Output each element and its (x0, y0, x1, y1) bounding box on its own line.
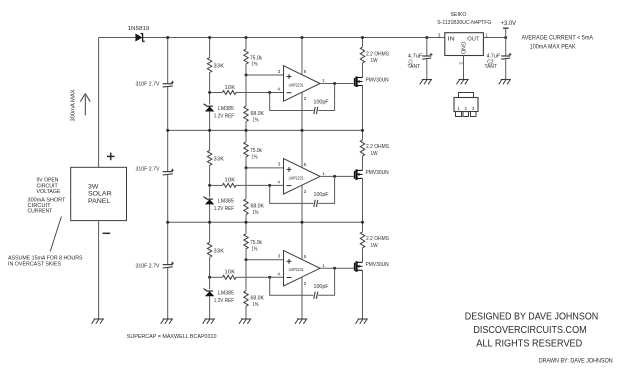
wire rail 2 (168, 221, 363, 223)
resistor 10K (stage 3) (210, 275, 247, 279)
package drawing SOT-89 (454, 93, 478, 117)
svg-text:33K: 33K (214, 64, 225, 70)
ground MOSFET source column (356, 319, 368, 324)
svg-text:LM385: LM385 (218, 199, 234, 205)
svg-text:VOLTAGE: VOLTAGE (37, 189, 61, 195)
svg-text:1W: 1W (371, 243, 379, 249)
wire op-amp V+ pin 5 (stage 1) (301, 38, 303, 75)
note average current (522, 35, 594, 51)
power +3.0V (501, 21, 517, 38)
voltage regulator U4 SEIKO S-1131B30UC-N4PTFG (445, 33, 484, 56)
pin 3 label (stage 2) (278, 162, 281, 167)
resistor 75.0k 1% (stage 3) (244, 222, 248, 259)
svg-text:1: 1 (457, 106, 460, 111)
svg-text:75.0k: 75.0k (250, 240, 262, 246)
svg-text:1%: 1% (252, 155, 258, 161)
junction C1 node (425, 36, 428, 39)
junction 75.0k top (stage 1) (245, 36, 248, 39)
wire op-amp V- pin 2 (stage 1) (301, 92, 303, 130)
label 100pF (stage 1) (314, 99, 330, 105)
label 2.2 OHMS 1W (stage 2) (366, 144, 389, 157)
pin 4 label (stage 3) (277, 271, 280, 276)
label LM385 1.2V REF (stage 1) (214, 106, 235, 120)
svg-text:33K: 33K (214, 248, 225, 254)
pin 2 label (stage 3) (304, 281, 307, 286)
note 300mA short circuit current (28, 197, 66, 214)
svg-text:GND: GND (459, 42, 465, 54)
svg-text:AVERAGE CURRENT < 5mA: AVERAGE CURRENT < 5mA (522, 35, 594, 42)
label 310F 2.7V (stage 3) (136, 263, 160, 269)
svg-text:1: 1 (322, 78, 325, 83)
label PMV30UN (stage 2) (366, 170, 389, 176)
svg-text:PANEL: PANEL (88, 198, 111, 205)
wire MOSFET source down (stage 3) (362, 270, 364, 319)
capacitor supercap 310F 2.7V (stage 1) (163, 38, 174, 131)
label 10K (stage 3) (225, 270, 236, 276)
svg-text:DISCOVERCIRCUITS.COM: DISCOVERCIRCUITS.COM (473, 325, 586, 336)
svg-text:LMP2231: LMP2231 (289, 175, 304, 180)
svg-text:1.2V REF: 1.2V REF (214, 298, 235, 304)
svg-text:LMP2231: LMP2231 (289, 267, 304, 272)
svg-text:4: 4 (277, 271, 280, 276)
ground op-amp V- column (295, 319, 307, 324)
label 100pF (stage 3) (314, 284, 330, 290)
wire op-amp V+ pin 5 (stage 3) (301, 222, 303, 259)
resistor 33K (stage 3) (207, 222, 211, 277)
label 33K (stage 2) (214, 156, 225, 162)
junction output feedback node (stage 1) (333, 82, 336, 85)
capacitor supercap 310F 2.7V (stage 3) (163, 222, 174, 319)
svg-text:10K: 10K (225, 270, 236, 276)
svg-text:1%: 1% (253, 117, 259, 123)
label 68.0K 1% (stage 2) (251, 204, 265, 217)
wire regulator GND to ground (463, 56, 465, 80)
pin 3 label (stage 1) (278, 69, 281, 74)
ground regulator (457, 80, 469, 85)
svg-text:68.0K: 68.0K (251, 111, 265, 117)
junction V+ at rail (stage 2) (301, 129, 304, 132)
transistor Q2 PMV30UN (355, 169, 363, 180)
diode LM385 1.2V REF (stage 2) (203, 185, 214, 222)
leader line to note (50, 217, 61, 252)
op-amp U1 LMP2231 (284, 66, 321, 102)
pin 1 label (stage 1) (322, 78, 325, 83)
pin 1 label (stage 2) (322, 171, 325, 176)
junction inverting input node (stage 2) (268, 184, 271, 187)
label 100pF (stage 2) (314, 192, 330, 198)
svg-text:DESIGNED BY DAVE JOHNSON: DESIGNED BY DAVE JOHNSON (465, 312, 599, 323)
svg-text:LM385: LM385 (218, 291, 234, 297)
svg-text:100pF: 100pF (314, 284, 330, 290)
resistor 68.0K 1% (stage 2) (244, 168, 248, 222)
pin 1 label regulator OUT (485, 32, 488, 37)
label 75.0k 1% (stage 1) (250, 55, 262, 67)
svg-text:5: 5 (304, 254, 307, 259)
label 2.2 OHMS 1W (stage 1) (366, 51, 389, 64)
ground supercap column (161, 319, 173, 324)
svg-text:2: 2 (464, 106, 467, 111)
svg-text:TANT: TANT (485, 64, 498, 70)
ground LM385 column (203, 319, 215, 324)
resistor 33K (stage 2) (207, 130, 211, 185)
svg-text:3: 3 (438, 32, 441, 37)
svg-text:LM385: LM385 (218, 106, 234, 112)
svg-text:1: 1 (485, 32, 488, 37)
junction 33K top (stage 3) (208, 221, 211, 224)
svg-text:ASSUME 15mA FOR 8 HOURS: ASSUME 15mA FOR 8 HOURS (8, 255, 83, 261)
wire MOSFET source down (stage 1) (362, 86, 364, 131)
junction top of supercap column (stage 1) (166, 36, 169, 39)
label PMV30UN (stage 1) (366, 77, 389, 83)
label 2.2 OHMS 1W (stage 3) (366, 236, 389, 249)
note supercap type (127, 334, 217, 340)
junction inverting input node (stage 1) (268, 91, 271, 94)
resistor 10K (stage 1) (210, 91, 247, 95)
svg-text:CURRENT: CURRENT (28, 209, 53, 215)
junction top of supercap column (stage 2) (166, 129, 169, 132)
svg-text:100mA MAX PEAK: 100mA MAX PEAK (530, 43, 576, 50)
junction 75.0k top (stage 3) (245, 221, 248, 224)
svg-text:S-1131B30UC-N4PTFG: S-1131B30UC-N4PTFG (437, 20, 491, 26)
resistor 68.0K 1% (stage 1) (244, 75, 248, 130)
junction 2.2 ohm top (stage 1) (361, 36, 364, 39)
wire op-amp output (stage 2) (320, 175, 354, 177)
wire op-amp V- pin 2 (stage 3) (301, 277, 303, 319)
svg-text:1W: 1W (371, 58, 379, 64)
label 33K (stage 1) (214, 64, 225, 70)
svg-text:75.0k: 75.0k (250, 148, 262, 154)
svg-text:SOLAR: SOLAR (88, 191, 112, 198)
svg-text:2.2 OHMS: 2.2 OHMS (366, 51, 389, 57)
capacitor 100pF feedback (stage 3) (270, 268, 335, 299)
label SEIKO part number (437, 12, 491, 26)
resistor 2.2 OHMS 1W (stage 3) (360, 222, 364, 262)
label 10K (stage 1) (225, 85, 236, 91)
svg-text:1%: 1% (252, 62, 258, 68)
svg-text:2: 2 (304, 189, 307, 194)
svg-text:1%: 1% (253, 302, 259, 308)
transistor Q3 PMV30UN (355, 261, 363, 272)
svg-text:2: 2 (304, 281, 307, 286)
svg-text:2: 2 (304, 96, 307, 101)
junction output feedback node (stage 2) (333, 175, 336, 178)
junction 75.0k top (stage 2) (245, 129, 248, 132)
resistor 33K (stage 1) (207, 38, 211, 93)
pin 4 label (stage 2) (277, 179, 280, 184)
note 9V open circuit voltage (37, 178, 61, 195)
svg-text:100pF: 100pF (314, 192, 330, 198)
junction output feedback node (stage 3) (333, 267, 336, 270)
ground solar panel (92, 319, 104, 324)
svg-text:DRAWN BY: DAVE JOHNSON: DRAWN BY: DAVE JOHNSON (539, 357, 613, 364)
resistor 75.0k 1% (stage 2) (244, 130, 248, 168)
svg-text:10K: 10K (225, 85, 236, 91)
junction V+ at rail (stage 1) (301, 36, 304, 39)
wire rail 1 (168, 129, 363, 131)
label + solar panel positive (107, 153, 115, 161)
label 68.0K 1% (stage 1) (251, 111, 265, 124)
label 75.0k 1% (stage 2) (250, 148, 262, 160)
svg-text:PMV30UN: PMV30UN (366, 77, 389, 83)
svg-text:300mA MAX: 300mA MAX (71, 89, 77, 121)
svg-text:IN: IN (448, 37, 455, 43)
label 310F 2.7V (stage 1) (136, 82, 160, 88)
ground C2 (499, 80, 511, 85)
wire inverting input (stage 2) (247, 184, 284, 186)
wire top rail (143, 37, 445, 39)
junction V+ at rail (stage 3) (301, 221, 304, 224)
svg-text:1W: 1W (371, 151, 379, 157)
svg-text:3: 3 (278, 254, 281, 259)
svg-text:SUPERCAP = MAXWELL BCAP0310: SUPERCAP = MAXWELL BCAP0310 (127, 334, 217, 340)
label LM385 1.2V REF (stage 2) (214, 199, 235, 213)
wire inverting input (stage 3) (247, 276, 284, 278)
wire solar panel positive to top rail (99, 38, 136, 168)
wire MOSFET source down (stage 2) (362, 178, 364, 222)
label 68.0K 1% (stage 3) (251, 296, 265, 309)
svg-text:310F 2.7V: 310F 2.7V (136, 82, 160, 88)
svg-text:10K: 10K (225, 178, 236, 184)
svg-text:3: 3 (278, 69, 281, 74)
label 75.0k 1% (stage 3) (250, 240, 262, 252)
svg-text:TANT: TANT (408, 64, 421, 70)
wire inverting input (stage 1) (247, 92, 284, 94)
solar panel PV1 3W (71, 167, 127, 220)
svg-text:75.0k: 75.0k (250, 55, 262, 61)
svg-text:68.0K: 68.0K (251, 296, 265, 302)
pin 1 label (stage 3) (322, 263, 325, 268)
wire op-amp output (stage 3) (320, 267, 354, 269)
wire op-amp V+ pin 5 (stage 2) (301, 130, 303, 167)
junction divider node (stage 2) (245, 166, 248, 169)
svg-text:2.2 OHMS: 2.2 OHMS (366, 144, 389, 150)
resistor 2.2 OHMS 1W (stage 1) (360, 38, 364, 78)
junction 2.2 ohm top (stage 2) (361, 129, 364, 132)
pin 2 label (stage 2) (304, 189, 307, 194)
capacitor C1 4.7uF TANT (422, 38, 432, 80)
svg-text:3: 3 (278, 162, 281, 167)
svg-text:310F 2.7V: 310F 2.7V (136, 167, 160, 173)
svg-text:OUT: OUT (467, 37, 480, 43)
pin 5 label (stage 2) (304, 162, 307, 167)
resistor 10K (stage 2) (210, 183, 247, 187)
diode D1 1N5819 (128, 26, 150, 42)
pin 3 label (stage 3) (278, 254, 281, 259)
pin 2 label regulator GND (458, 62, 463, 65)
label - solar panel negative (103, 232, 111, 234)
wire regulator output (483, 37, 505, 39)
svg-text:100pF: 100pF (314, 99, 330, 105)
capacitor 100pF feedback (stage 2) (270, 176, 335, 207)
junction divider node (stage 1) (245, 74, 248, 77)
svg-text:5: 5 (304, 69, 307, 74)
svg-text:LMP2231: LMP2231 (289, 82, 304, 87)
ground 68K column (239, 319, 251, 324)
label LM385 1.2V REF (stage 3) (214, 291, 235, 305)
note assume 15mA for 8 hours in overcast skies (8, 255, 83, 267)
svg-text:3W: 3W (88, 183, 99, 190)
svg-text:SEIKO: SEIKO (451, 12, 467, 18)
svg-text:68.0K: 68.0K (251, 204, 265, 210)
capacitor C2 4.7uF TANT (501, 38, 511, 80)
resistor 75.0k 1% (stage 1) (244, 38, 248, 76)
svg-text:310F 2.7V: 310F 2.7V (136, 263, 160, 269)
pin 3 label regulator IN (438, 32, 441, 37)
op-amp U2 LMP2231 (284, 159, 321, 195)
capacitor 100pF feedback (stage 1) (270, 84, 335, 115)
credits designed by (465, 312, 599, 350)
svg-text:PMV30UN: PMV30UN (366, 262, 389, 268)
diode LM385 1.2V REF (stage 1) (203, 93, 214, 131)
svg-text:1: 1 (322, 171, 325, 176)
pin 4 label (stage 1) (277, 87, 280, 92)
current arrow 300mA MAX (71, 89, 91, 121)
junction 10K left node (stage 3) (208, 276, 211, 279)
svg-text:4.7uF: 4.7uF (487, 53, 501, 59)
svg-text:5: 5 (304, 162, 307, 167)
label 10K (stage 2) (225, 178, 236, 184)
pin 2 label (stage 1) (304, 96, 307, 101)
credit drawn by (539, 357, 613, 364)
resistor 2.2 OHMS 1W (stage 2) (360, 130, 364, 170)
op-amp U3 LMP2231 (284, 251, 321, 287)
svg-text:1.2V REF: 1.2V REF (214, 113, 235, 119)
junction inverting input node (stage 3) (268, 276, 271, 279)
svg-text:ALL RIGHTS RESERVED: ALL RIGHTS RESERVED (476, 338, 582, 349)
wire noninverting input (stage 3) (246, 259, 284, 261)
svg-text:33K: 33K (214, 156, 225, 162)
svg-text:1%: 1% (253, 210, 259, 216)
junction 10K left node (stage 1) (208, 91, 211, 94)
ground C1 (420, 80, 432, 85)
svg-text:4: 4 (277, 179, 280, 184)
junction output node (504, 36, 507, 39)
wire op-amp output (stage 1) (320, 83, 354, 85)
svg-text:3: 3 (472, 106, 475, 111)
wire noninverting input (stage 1) (246, 74, 284, 76)
junction 33K top (stage 1) (208, 36, 211, 39)
diode LM385 1.2V REF (stage 3) (203, 277, 214, 319)
wire solar panel negative to ground (98, 221, 100, 319)
svg-text:IN OVERCAST SKIES: IN OVERCAST SKIES (8, 261, 61, 267)
junction divider node (stage 3) (245, 258, 248, 261)
junction 2.2 ohm top (stage 3) (361, 221, 364, 224)
junction 10K left node (stage 2) (208, 184, 211, 187)
junction 33K top (stage 2) (208, 129, 211, 132)
resistor 68.0K 1% (stage 3) (244, 260, 248, 319)
wire noninverting input (stage 2) (246, 167, 284, 169)
svg-text:+3.0V: +3.0V (501, 21, 517, 27)
svg-text:PMV30UN: PMV30UN (366, 170, 389, 176)
wire op-amp V- pin 2 (stage 2) (301, 185, 303, 222)
svg-text:1.2V REF: 1.2V REF (214, 206, 235, 212)
transistor Q1 PMV30UN (355, 77, 363, 88)
label PMV30UN (stage 3) (366, 262, 389, 268)
junction top of supercap column (stage 3) (166, 221, 169, 224)
capacitor supercap 310F 2.7V (stage 2) (163, 130, 174, 222)
svg-text:1: 1 (322, 263, 325, 268)
label 33K (stage 3) (214, 248, 225, 254)
pin 5 label (stage 3) (304, 254, 307, 259)
svg-text:2.2 OHMS: 2.2 OHMS (366, 236, 389, 242)
svg-text:2: 2 (458, 62, 463, 65)
svg-text:4: 4 (277, 87, 280, 92)
label 310F 2.7V (stage 2) (136, 167, 160, 173)
svg-text:1%: 1% (252, 246, 258, 252)
label C2 4.7uF TANT (485, 53, 501, 70)
label C1 4.7uF TANT (408, 53, 424, 70)
pin 5 label (stage 1) (304, 69, 307, 74)
svg-text:1N5819: 1N5819 (128, 26, 150, 32)
